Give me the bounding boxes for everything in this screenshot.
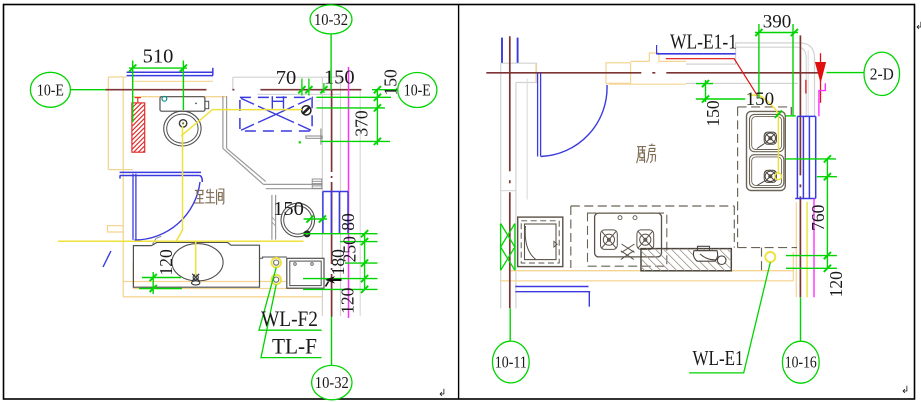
dim 150 ext top: [696, 83, 713, 85]
dim tick: [824, 173, 831, 180]
centerline (dark red) kitchen left wall: [509, 36, 511, 308]
leader WL-E1: [689, 262, 770, 373]
svg-text:510: 510: [143, 46, 174, 68]
wall finish (tan) bottom line 3: [123, 296, 322, 298]
dim tick: [320, 86, 327, 93]
wall finish (tan) bottom of niche: [108, 169, 133, 171]
wall finish (tan) room top inner line: [133, 96, 228, 98]
wall face (gray) right wall outer: [340, 77, 342, 316]
svg-text:150: 150: [381, 69, 401, 96]
counter step mark: [152, 236, 162, 245]
dim tick: [374, 104, 381, 111]
threshold (blue) lower room: [120, 171, 201, 173]
centerline (dark red) horizontal axis 10-E: [105, 89, 372, 91]
round wash basin: [281, 203, 315, 237]
svg-text:80: 80: [338, 213, 358, 231]
dim 70 ext2: [308, 79, 310, 96]
shower tray cross (blue): [241, 96, 311, 130]
kitchen door leaf (blue): [537, 73, 539, 157]
centerline (dark red) vertical axis 10-32: [331, 90, 333, 317]
wall face (gray) shower top jamb: [232, 77, 234, 90]
shower enclosure wall bottom pair: [263, 183, 322, 185]
svg-text:10-16: 10-16: [785, 353, 817, 372]
right wall rounded corner inner (gray): [798, 47, 806, 116]
svg-text:70: 70: [276, 67, 297, 89]
dim 150 basin line: [304, 218, 328, 220]
dim tick: [361, 230, 368, 237]
svg-text:120: 120: [156, 249, 176, 276]
svg-text:↲: ↲: [915, 21, 921, 32]
svg-text:150: 150: [324, 67, 355, 89]
wall finish (tan) top horizontal: [108, 76, 126, 78]
axis bubble 10-32: [310, 5, 352, 34]
svg-text:2-D: 2-D: [870, 64, 894, 83]
top wall inner face right part (gray): [686, 82, 798, 84]
washing machine: [287, 258, 324, 288]
sink counter dashed right: [790, 107, 792, 117]
tick line: [785, 115, 796, 117]
dim tick: [305, 86, 312, 93]
shower tray (blue dashed): [240, 97, 312, 131]
cabinet sink unit left: [518, 217, 563, 267]
toilet drain: [179, 120, 186, 127]
toilet bowl: [164, 111, 201, 146]
axis green to 10-16: [800, 297, 802, 341]
drain pipe (yellow) from toilet: [181, 110, 302, 136]
panel divider: [458, 5, 460, 400]
finish (tan) right verticals: [792, 252, 794, 281]
dim tick: [361, 238, 368, 245]
chain ext y263.1: [345, 262, 378, 264]
left wall outer face (gray): [500, 63, 502, 308]
counter shelf line: [260, 257, 287, 258]
ext line B: [316, 107, 385, 109]
leader WL-F2: [259, 268, 322, 331]
svg-text:120: 120: [338, 287, 358, 314]
finish (tan) door frame box: [606, 63, 631, 84]
svg-text:150: 150: [273, 198, 304, 220]
axis bubble 10-32: [312, 365, 352, 399]
axis line green right: [372, 89, 398, 91]
radiator hatch (red): [132, 98, 145, 153]
balcony pipe lines (blue): [515, 286, 588, 288]
dim tick: [180, 65, 187, 72]
svg-text:150: 150: [746, 89, 775, 110]
svg-text:↲: ↲: [438, 388, 446, 399]
supply pipe (yellow) to sink: [749, 95, 778, 173]
door swing arc (blue): [135, 182, 201, 240]
right wall rounded corner outer (gray): [800, 43, 815, 116]
oval washbasin: [172, 244, 223, 281]
axis line green bottom: [331, 317, 333, 366]
burner 1: [601, 230, 618, 250]
wall finish (tan) bottom line 2: [133, 288, 303, 290]
dim tick: [361, 286, 368, 293]
svg-text:WL-E1: WL-E1: [693, 346, 744, 370]
riser pipes (blue) top left: [501, 38, 503, 63]
dim 150 ext bottom: [696, 98, 745, 100]
wall face (gray) right wall inner: [321, 77, 323, 316]
wall finish (tan) counter left vertical: [132, 262, 134, 289]
chain vline: [364, 234, 366, 290]
wall face (gray) shower top outer: [233, 76, 341, 78]
axis bubble 10-E: [30, 72, 70, 107]
centerline (dark red) kitchen right wall: [799, 35, 801, 297]
green node dot: [299, 141, 301, 143]
dim 150 vline: [705, 80, 707, 102]
ext line C: [321, 140, 390, 142]
chain ext y241.6: [340, 241, 378, 243]
shower door handle: [306, 136, 322, 138]
left wall gap line: [501, 190, 516, 192]
dim tick: [824, 252, 831, 259]
basin faucet: [192, 274, 200, 285]
window (blue) top double line: [127, 71, 213, 73]
svg-text:370: 370: [351, 110, 371, 137]
dim 390 line: [755, 32, 798, 34]
dim tick: [298, 86, 305, 93]
left wall inner face (gray): [515, 83, 517, 309]
counter dashed right vertical: [733, 206, 735, 248]
dim tick: [306, 215, 313, 222]
finish (tan) room bottom line: [500, 280, 794, 282]
wall hatch block: [312, 179, 322, 188]
floor drain stand pipe symbol (blue): [271, 96, 273, 109]
waste pipe (yellow) toilet vertical: [176, 126, 182, 241]
vanity counter outline: [133, 242, 259, 287]
chain vline: [826, 159, 828, 268]
chain ext y233.7: [303, 233, 378, 235]
door jamb finish line (gray): [526, 79, 528, 200]
wall finish (tan) door recess jog: [107, 226, 123, 232]
toilet tank dot: [195, 103, 197, 105]
dim tick: [361, 260, 368, 267]
axis green to 10-11: [509, 308, 511, 341]
svg-text:390: 390: [763, 11, 792, 32]
wall finish (gray) right outer line: [359, 90, 361, 316]
svg-text:10-E: 10-E: [37, 80, 64, 99]
dim tick: [319, 215, 326, 222]
pipe (yellow) kitchen riser: [806, 202, 808, 297]
dim 70 ext: [301, 79, 303, 96]
svg-text:WL-F2: WL-F2: [261, 306, 318, 331]
ext 268: [786, 267, 837, 269]
toilet flush button: [205, 101, 209, 108]
finish (tan) top inner line: [609, 83, 686, 85]
dim 120 vline: [152, 272, 154, 294]
dim tick: [755, 29, 762, 36]
floor drain WL-E1 (yellow ring): [765, 252, 775, 262]
axis bubble 10-16: [782, 341, 819, 383]
finish (tan) counter front line: [510, 270, 793, 272]
dim tick: [702, 95, 709, 102]
dim 120 line1: [142, 277, 181, 279]
valve (red) on wall: [820, 53, 822, 103]
toilet tank: [160, 97, 205, 112]
basin pipe (yellow) vertical: [195, 241, 197, 275]
faucet/pot symbol on counter: [693, 246, 726, 264]
finish (tan) top wall notch: [631, 53, 687, 61]
wall insulation X symbol: [501, 224, 515, 271]
svg-text:10-32: 10-32: [314, 10, 348, 29]
leader TL-F: [261, 285, 322, 358]
svg-text:10-E: 10-E: [404, 81, 431, 100]
niche wall (gray) pair: [271, 195, 273, 240]
axis green to 2-D: [827, 72, 865, 74]
top wall corner (gray): [501, 63, 537, 82]
svg-text:TL-F: TL-F: [272, 333, 317, 358]
svg-text:10-11: 10-11: [495, 353, 527, 372]
sink counter dashed top: [738, 106, 792, 108]
dim 510 ext left: [132, 61, 134, 123]
counter dashed divider: [570, 206, 572, 268]
dim tick: [150, 285, 157, 292]
dim 390 ext right: [792, 24, 794, 116]
sink counter dashed left: [737, 107, 739, 248]
stove knobs: [618, 216, 622, 220]
centerline (dark red) kitchen horizontal: [486, 72, 826, 74]
room label kitchen: [637, 144, 656, 164]
arrow mark black: [326, 277, 342, 286]
leader (red) WL-E1-1: [666, 59, 757, 95]
dim tick: [775, 111, 782, 118]
svg-text:10-32: 10-32: [315, 373, 349, 392]
room label: bathroom (custom glyphs): [194, 189, 224, 205]
floor drain circle WL-F2 (yellow ring): [271, 258, 281, 268]
door leaf (blue): [132, 174, 134, 240]
shower enclosure wall chamfer pair: [223, 148, 264, 184]
dim 390 ext left long: [758, 24, 760, 98]
counter dashed boundary top: [571, 205, 735, 207]
chain ext y289.4: [303, 288, 378, 290]
wall face (gray) shower top inner: [257, 93, 340, 95]
kitchen double sink: [747, 111, 786, 190]
right wall inner line 2 (gray): [807, 50, 809, 116]
window (blue) end tick: [212, 68, 214, 76]
floor drain (black): [302, 106, 311, 115]
ext line A: [316, 96, 391, 98]
dim line vertical 150-370: [376, 90, 378, 145]
sink faucet 2: [757, 170, 776, 185]
toilet tank valve (teal): [162, 96, 167, 101]
floor drain circle TL-F (yellow ring): [271, 275, 281, 285]
dim tick: [150, 274, 157, 281]
ext 176: [817, 176, 837, 178]
axis bubble 10-11: [492, 341, 529, 383]
dim tick: [374, 94, 381, 101]
ext line y159: [786, 158, 837, 160]
kitchen door swing arc (blue): [541, 85, 607, 157]
dim 510 ext right: [182, 61, 184, 111]
dim 120 line2: [139, 288, 182, 290]
axis bubble 2-D: [864, 52, 900, 95]
top wall outer face mid (gray): [686, 43, 800, 64]
dim tick: [791, 29, 798, 36]
stray pipe segment (blue): [103, 251, 111, 267]
ext 255: [786, 255, 837, 257]
wall finish line (tan) left vertical: [107, 77, 109, 170]
burner 2: [637, 230, 654, 250]
dim tick: [361, 275, 368, 282]
svg-text:150: 150: [703, 100, 723, 127]
axis line green left: [70, 89, 105, 91]
svg-text:180: 180: [328, 249, 348, 276]
dim 510 line: [129, 67, 187, 69]
svg-text:760: 760: [808, 204, 828, 231]
hatched counter section: [641, 249, 731, 271]
sink faucet 1: [757, 132, 776, 148]
shower enclosure wall (gray) vertical pair: [222, 96, 224, 148]
dim tick: [702, 80, 709, 87]
riser duct (blue) kitchen box: [795, 116, 816, 198]
gas stove body: [595, 213, 662, 257]
svg-text:↲: ↲: [901, 385, 909, 396]
dim tick: [824, 265, 831, 272]
wall finish (tan) bottom line 1: [122, 281, 322, 283]
wall finish (tan) main left vertical: [122, 77, 124, 297]
axis line green top: [330, 34, 332, 90]
chain ext y278.6: [303, 278, 378, 280]
riser duct (blue) box: [323, 192, 348, 234]
wall finish (tan) window sill line: [134, 80, 213, 82]
axis bubble 10-E: [398, 73, 437, 108]
pipe riser (magenta) vertical: [348, 67, 350, 318]
svg-text:WL-E1-1: WL-E1-1: [670, 30, 737, 54]
svg-text:120: 120: [826, 271, 846, 298]
dim 150 ext: [323, 83, 325, 93]
pipe (magenta) kitchen: [819, 83, 825, 116]
waste pipe (yellow) horizontal: [58, 240, 304, 242]
label underline (blue) WL-E1-1: [656, 53, 735, 55]
dim tick: [824, 155, 831, 162]
dim tick: [374, 138, 381, 145]
dim tick: [374, 86, 381, 93]
dim tick: [129, 65, 136, 72]
stove center cross: [621, 251, 634, 260]
drain area dashed box: [738, 247, 797, 249]
top wall second line (gray): [736, 46, 798, 48]
